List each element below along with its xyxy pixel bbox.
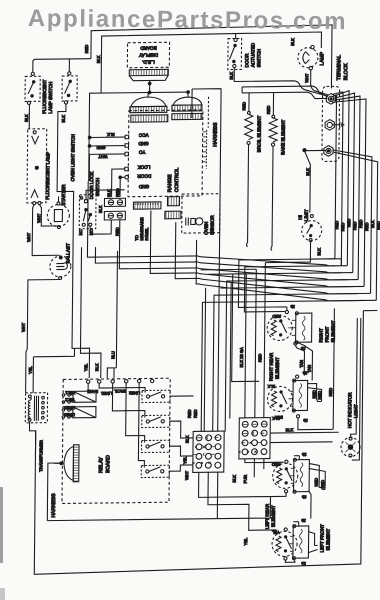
svg-text:GND: GND xyxy=(138,184,149,189)
right front surface switch SW-RF xyxy=(267,314,292,341)
svg-text:HARNESS: HARNESS xyxy=(213,122,219,147)
watermark xyxy=(28,5,380,36)
relay K2 xyxy=(68,407,96,419)
svg-text:RIGHT: RIGHT xyxy=(319,328,324,343)
wires right front to right rear TAN xyxy=(288,320,296,335)
svg-text:BLOCK: BLOCK xyxy=(343,63,349,81)
svg-text:CONTROL: CONTROL xyxy=(174,167,180,192)
right rear element E-RR xyxy=(268,352,308,424)
starter ST1 xyxy=(47,184,69,229)
svg-text:BLK: BLK xyxy=(272,416,280,421)
svg-text:YEL: YEL xyxy=(182,456,187,464)
wires left rear RED risers xyxy=(290,468,294,483)
svg-text:PUR: PUR xyxy=(243,475,248,484)
display board connector xyxy=(129,69,168,92)
svg-text:LEFT REAR: LEFT REAR xyxy=(265,503,270,529)
svg-text:2b: 2b xyxy=(301,452,306,457)
svg-text:BLK: BLK xyxy=(267,384,275,389)
pin LOCK xyxy=(125,164,151,170)
harness supply wire xyxy=(47,463,61,521)
svg-text:BLK: BLK xyxy=(185,435,190,443)
ballast B1 xyxy=(50,243,71,280)
svg-text:LOCK: LOCK xyxy=(137,164,150,169)
fluorescent lamp switch SW1 xyxy=(25,72,53,114)
wire transformer bottom to border xyxy=(29,421,36,457)
svg-text:RED: RED xyxy=(115,227,120,236)
svg-text:DOOR LOCK: DOOR LOCK xyxy=(89,171,94,200)
left verticals to relay board xyxy=(80,247,102,378)
wire plug2 RED down xyxy=(119,220,121,247)
wire: lamp to terminal xyxy=(311,70,329,96)
svg-text:RED: RED xyxy=(193,409,198,418)
wire harness run 1 xyxy=(87,178,335,268)
wire: switch feed bus xyxy=(33,59,91,73)
connector dome P1 xyxy=(130,92,168,122)
bake element R2 xyxy=(265,105,285,155)
svg-text:RED: RED xyxy=(257,354,262,363)
right rear surface switch SW-RR xyxy=(267,384,293,412)
wire broil down xyxy=(247,144,249,246)
wire: main RED feed top xyxy=(91,25,332,91)
svg-text:ELEMENT: ELEMENT xyxy=(331,320,336,342)
svg-text:YEL: YEL xyxy=(83,363,88,371)
svg-text:RIGHT REAR: RIGHT REAR xyxy=(269,352,274,381)
svg-text:LAMP: LAMP xyxy=(319,51,325,65)
svg-text:ELEMENT: ELEMENT xyxy=(275,357,280,379)
svg-text:HARNESS: HARNESS xyxy=(51,493,57,518)
oven feed wires to terminal xyxy=(242,86,328,98)
svg-text:FLUORESCENT LAMP: FLUORESCENT LAMP xyxy=(45,152,50,200)
svg-text:2b: 2b xyxy=(290,304,295,309)
svg-text:SWITCH: SWITCH xyxy=(95,178,100,196)
fluorescent lamp FL1 xyxy=(27,129,51,205)
range control dashed box xyxy=(128,110,203,197)
svg-text:1b: 1b xyxy=(301,495,306,500)
wires right rear RED risers xyxy=(288,391,293,406)
svg-text:VCC: VCC xyxy=(138,133,148,138)
svg-text:LINE2: LINE2 xyxy=(128,391,140,396)
svg-text:STARTER: STARTER xyxy=(61,184,66,206)
terminal block TB xyxy=(322,55,350,162)
svg-text:ELEMENT: ELEMENT xyxy=(325,528,330,550)
wire harness run 4 xyxy=(150,208,353,289)
wire GND xyxy=(90,145,126,147)
wire door lock C up xyxy=(86,190,125,200)
small connector K2 xyxy=(165,211,181,219)
wires below grid J1 xyxy=(199,472,271,498)
wire YEL to transformer xyxy=(33,348,74,392)
svg-text:GND: GND xyxy=(138,141,149,146)
wire LOCK to plug xyxy=(112,169,125,197)
relay contact set 4 xyxy=(138,382,170,477)
svg-text:LINE1: LINE1 xyxy=(100,391,112,396)
svg-text:TRANSFORMER: TRANSFORMER xyxy=(38,440,43,472)
svg-text:RED: RED xyxy=(364,222,369,231)
svg-text:BLU: BLU xyxy=(110,351,115,359)
svg-text:RED: RED xyxy=(187,409,192,418)
ground at terminal block xyxy=(332,121,343,128)
left front surface switch SW-LF xyxy=(271,528,297,560)
wires relay to connector grid xyxy=(169,396,193,471)
page border xyxy=(34,311,377,575)
svg-text:SENSOR: SENSOR xyxy=(210,215,215,235)
wire VCC xyxy=(90,136,126,138)
wire door lock NO to plug2 xyxy=(90,220,111,234)
wire YO xyxy=(89,154,125,181)
svg-text:RED: RED xyxy=(317,391,322,400)
oven light switch SW2 xyxy=(61,72,77,182)
svg-text:OVEN: OVEN xyxy=(204,222,209,235)
svg-text:DOOR: DOOR xyxy=(244,53,249,68)
wire SW1 to fluor lamp xyxy=(28,104,30,129)
wire harness run 6 xyxy=(196,238,365,302)
svg-text:BROIL: BROIL xyxy=(113,389,126,394)
relay contact set 1 xyxy=(88,382,170,403)
svg-text:BLK: BLK xyxy=(229,72,234,80)
svg-text:BLK: BLK xyxy=(61,115,66,123)
svg-text:BLK: BLK xyxy=(232,475,237,483)
svg-text:BLK: BLK xyxy=(24,114,29,122)
door lock plug pair 1 xyxy=(104,198,125,206)
svg-text:RED: RED xyxy=(346,219,351,228)
wire bake down xyxy=(271,146,273,250)
svg-text:WHT: WHT xyxy=(304,73,309,83)
wire lamp left terminal to ballast xyxy=(32,204,60,255)
wire drops from band to bottom components xyxy=(244,266,347,312)
wire harness run 5 xyxy=(175,220,359,296)
wires hot indicator xyxy=(350,318,360,460)
pin GND xyxy=(125,141,149,147)
wire: hi-limit down xyxy=(265,242,310,263)
left front element E-LF xyxy=(292,518,330,566)
svg-text:YEL: YEL xyxy=(271,530,279,535)
svg-text:RED: RED xyxy=(334,221,339,230)
svg-text:ELEMENT: ELEMENT xyxy=(271,505,276,527)
range control right-edge pins xyxy=(202,97,208,169)
wire SW2 down to lower left xyxy=(55,104,92,379)
svg-text:DOOR: DOOR xyxy=(137,173,152,178)
relay left edge pins xyxy=(62,390,75,418)
svg-text:WHT: WHT xyxy=(184,470,189,480)
small connector K1 xyxy=(167,197,179,206)
oven lamp LT1 xyxy=(298,45,326,70)
node xyxy=(148,91,151,94)
svg-text:WHT: WHT xyxy=(98,154,108,159)
connector grid J2 xyxy=(238,418,270,459)
wire: post3 to hi-limit xyxy=(303,149,326,212)
door lock plug pair 2 xyxy=(104,211,125,220)
wire: main BLK feed top xyxy=(101,32,321,93)
svg-text:WHT: WHT xyxy=(26,232,31,242)
svg-text:GRN: GRN xyxy=(97,145,106,150)
door lock switch SW-DL xyxy=(78,195,96,236)
svg-text:YEL: YEL xyxy=(28,365,33,373)
wire grid J2 right xyxy=(270,432,339,442)
relay board edge connector xyxy=(54,445,79,482)
svg-text:RED: RED xyxy=(352,221,357,230)
svg-text:RED: RED xyxy=(328,388,333,397)
svg-text:YEL: YEL xyxy=(243,537,248,545)
svg-text:TERMINAL: TERMINAL xyxy=(336,55,342,81)
relay board top terminals xyxy=(86,379,154,396)
svg-text:FLUORESCENT: FLUORESCENT xyxy=(42,79,47,113)
pin DOOR xyxy=(125,173,151,179)
svg-text:RED: RED xyxy=(312,390,317,399)
wire harness run 2 xyxy=(95,244,341,275)
oven compartment box lines xyxy=(189,89,221,432)
relay board dashed box xyxy=(62,378,170,503)
wire lamp to starter xyxy=(39,204,57,226)
membrane connector strip xyxy=(133,202,161,241)
transformer T1 xyxy=(25,393,48,472)
svg-text:BLK: BLK xyxy=(290,38,295,46)
svg-text:RED: RED xyxy=(320,480,325,489)
svg-text:-LIMIT: -LIMIT xyxy=(304,209,309,223)
wire drops to grid2 xyxy=(245,263,266,419)
svg-text:RED: RED xyxy=(340,223,345,232)
svg-text:BOARD: BOARD xyxy=(140,45,157,50)
svg-text:FRONT: FRONT xyxy=(325,326,330,342)
svg-text:BLK: BLK xyxy=(107,132,115,137)
svg-text:YO: YO xyxy=(138,150,145,155)
oven sensor dashed box xyxy=(182,194,220,233)
svg-text:TAN: TAN xyxy=(299,360,304,368)
svg-text:DISPLAY: DISPLAY xyxy=(139,52,158,57)
hot indicator light LT2 xyxy=(341,437,360,457)
left rear element E-LR xyxy=(265,452,310,529)
L.E.D. display board (dashed box, inverted text) xyxy=(127,42,169,67)
svg-text:PANEL: PANEL xyxy=(144,227,149,241)
relay contact set 3 xyxy=(125,382,170,452)
svg-text:RED: RED xyxy=(241,102,246,111)
svg-text:BLK 22 GA: BLK 22 GA xyxy=(239,347,244,367)
svg-text:BAKE ELEMENT: BAKE ELEMENT xyxy=(280,119,285,154)
svg-text:OVEN LIGHT SWITCH: OVEN LIGHT SWITCH xyxy=(70,134,75,181)
svg-text:BLK: BLK xyxy=(96,55,101,63)
wire: control supply bus xyxy=(89,92,188,181)
right front element E-RF xyxy=(285,304,336,352)
svg-text:RELAY: RELAY xyxy=(98,456,104,473)
svg-text:RED: RED xyxy=(358,219,363,228)
svg-text:BLK: BLK xyxy=(305,168,310,176)
left rear surface switch SW-LR xyxy=(272,460,298,493)
svg-text:SWITCH: SWITCH xyxy=(256,49,261,67)
svg-text:HOT INDICATOR: HOT INDICATOR xyxy=(347,392,352,428)
connector grid J1 xyxy=(192,431,224,472)
wires left front xyxy=(289,536,293,551)
wire ballast to transformer WHT xyxy=(26,279,61,393)
svg-text:BLK: BLK xyxy=(94,363,99,371)
svg-text:1b: 1b xyxy=(303,418,308,423)
wire DOOR to plug xyxy=(120,177,125,197)
svg-text:RED: RED xyxy=(272,314,281,319)
svg-text:HI: HI xyxy=(298,215,303,220)
door actuated switch SW-DA xyxy=(228,33,262,70)
svg-text:RED: RED xyxy=(84,45,89,54)
wire fan from terminal posts xyxy=(330,90,378,301)
svg-text:WHT: WHT xyxy=(36,213,41,223)
node xyxy=(187,91,190,94)
pin VCC xyxy=(125,133,149,139)
pin YO xyxy=(125,150,146,156)
svg-text:BLK: BLK xyxy=(370,220,375,228)
svg-text:NC: NC xyxy=(78,229,83,235)
svg-text:L.E.D.: L.E.D. xyxy=(142,59,155,64)
svg-text:RED: RED xyxy=(314,478,319,487)
svg-text:RED: RED xyxy=(266,106,271,115)
svg-text:WHT: WHT xyxy=(21,322,26,332)
svg-text:RED: RED xyxy=(272,462,281,467)
svg-text:RED: RED xyxy=(376,221,380,230)
broil element R1 xyxy=(241,102,262,153)
svg-text:BLK: BLK xyxy=(316,248,321,256)
svg-text:ACTUATED: ACTUATED xyxy=(250,42,255,67)
relay K1 xyxy=(68,391,96,403)
hi-limit thermostat xyxy=(298,209,322,242)
wire: door switch to terminal xyxy=(234,66,329,97)
oven sensor xyxy=(186,215,215,235)
svg-text:BROIL ELEMENT: BROIL ELEMENT xyxy=(256,115,261,152)
scan artifact gray bar xyxy=(0,487,3,563)
svg-text:2b: 2b xyxy=(302,371,307,376)
wire harness run 3 xyxy=(119,244,347,282)
connector dome P2 xyxy=(172,92,202,120)
svg-text:BOARD: BOARD xyxy=(105,455,111,473)
svg-text:LEFT FRONT: LEFT FRONT xyxy=(319,524,324,552)
svg-text:C: C xyxy=(80,195,83,200)
svg-text:BLK: BLK xyxy=(286,427,294,432)
relay contact set 2 xyxy=(112,382,170,427)
svg-text:2b: 2b xyxy=(301,518,306,523)
svg-text:BALLAST: BALLAST xyxy=(65,243,70,263)
svg-text:RANGE: RANGE xyxy=(167,174,173,193)
svg-text:BLK: BLK xyxy=(98,205,103,213)
wires below grid J2 xyxy=(245,458,284,477)
svg-text:LAMP SWITCH: LAMP SWITCH xyxy=(48,82,53,114)
